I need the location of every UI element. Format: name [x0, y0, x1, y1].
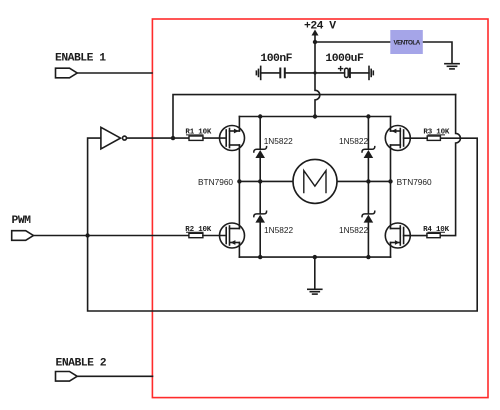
connector flag PWM	[12, 231, 34, 241]
svg-text:1000uF: 1000uF	[325, 53, 364, 65]
transistor Q2 (bottom-left N-MOSFET)	[203, 181, 245, 257]
junction top rail / right diode	[366, 114, 370, 118]
junction +24V / capacitors	[313, 71, 316, 74]
junction PWM/inverter column	[85, 233, 89, 237]
capacitor C2 polarized plates	[345, 68, 350, 77]
wire inverter output up and across to right column A	[173, 95, 456, 139]
inverter (gate)	[101, 127, 121, 149]
capacitor C2 plus sign	[339, 67, 343, 71]
svg-text:ENABLE 2: ENABLE 2	[56, 357, 107, 369]
connector flag ENABLE1	[56, 68, 78, 78]
svg-text:1N5822: 1N5822	[264, 225, 293, 235]
power +24V arrow symbol	[312, 30, 319, 36]
svg-text:1N5822: 1N5822	[264, 136, 293, 146]
junction right mid / diode column	[366, 179, 370, 183]
resistor R4	[423, 226, 450, 238]
junction inverter output	[171, 136, 175, 140]
wire bridge top rail	[239, 116, 390, 118]
resistor R2	[185, 226, 212, 238]
transistor Q1 (top-left P-MOSFET)	[203, 117, 245, 182]
transistor Q4 (bottom-right N-MOSFET)	[385, 181, 427, 257]
ground (VENTOLA)	[445, 64, 459, 69]
wire ENABLE1 to frame	[77, 72, 152, 74]
ground (rotated, right of 1000uF)	[369, 66, 373, 79]
wire ENABLE2 to frame	[77, 375, 152, 377]
transistor Q3 (top-right P-MOSFET)	[385, 117, 427, 182]
svg-text:VENTOLA: VENTOLA	[393, 40, 420, 47]
junction +24V / VENTOLA branch	[313, 40, 317, 44]
wire bridge bottom rail	[239, 256, 390, 258]
svg-text:+24 V: +24 V	[304, 20, 336, 32]
junction bottom rail / ground stub	[313, 255, 317, 259]
frame (red border rectangle)	[152, 19, 488, 398]
junction top rail / +24	[313, 114, 317, 118]
wire PWM column down	[88, 138, 101, 235]
wire +24V to VENTOLA	[315, 41, 390, 43]
motor M1	[293, 159, 337, 203]
wire C2 to right ground	[351, 72, 369, 74]
junction top rail / left diode	[258, 114, 262, 118]
junction bottom rail / right diode	[366, 255, 370, 259]
diode D1 1N5822 (top-left)	[254, 117, 267, 182]
diode D3 1N5822 (top-right)	[362, 117, 375, 182]
junction right mid / mosfets	[388, 179, 392, 183]
capacitor C1 plates	[280, 69, 285, 78]
diode D4 1N5822 (bottom-right)	[362, 181, 375, 257]
ground (bridge)	[308, 289, 322, 294]
wire right mid rail	[337, 180, 391, 182]
wire inverter output to R1	[127, 137, 189, 139]
svg-text:ENABLE 1: ENABLE 1	[55, 52, 106, 64]
junction bottom rail / left diode	[258, 255, 262, 259]
wire VENTOLA to ground	[423, 42, 452, 64]
wire PWM bottom run to R3 column	[88, 138, 478, 311]
svg-text:BTN7960: BTN7960	[198, 177, 233, 187]
junction left mid / mosfets	[237, 179, 241, 183]
resistor R3	[423, 129, 450, 141]
svg-text:1N5822: 1N5822	[339, 136, 368, 146]
VENTOLA load box	[390, 30, 423, 54]
wire C1 to +24 column and C2	[286, 72, 345, 74]
wire left mid rail	[239, 180, 293, 182]
svg-text:100nF: 100nF	[260, 53, 292, 65]
resistor R1	[185, 129, 212, 141]
junction left mid / diode column	[258, 179, 262, 183]
svg-text:PWM: PWM	[12, 215, 32, 227]
wire column A down to R4 (with hop over R3 wire)	[440, 95, 460, 236]
wire ground to C1	[261, 72, 280, 74]
svg-text:BTN7960: BTN7960	[397, 177, 432, 187]
wire ground stub	[314, 257, 316, 289]
wire +24V column (hop over control line)	[315, 35, 320, 117]
connector flag ENABLE2	[56, 372, 78, 382]
wire PWM to R2	[33, 235, 189, 237]
diode D2 1N5822 (bottom-left)	[254, 181, 267, 257]
ground (rotated, left of 100nF)	[256, 66, 260, 79]
svg-text:1N5822: 1N5822	[339, 225, 368, 235]
